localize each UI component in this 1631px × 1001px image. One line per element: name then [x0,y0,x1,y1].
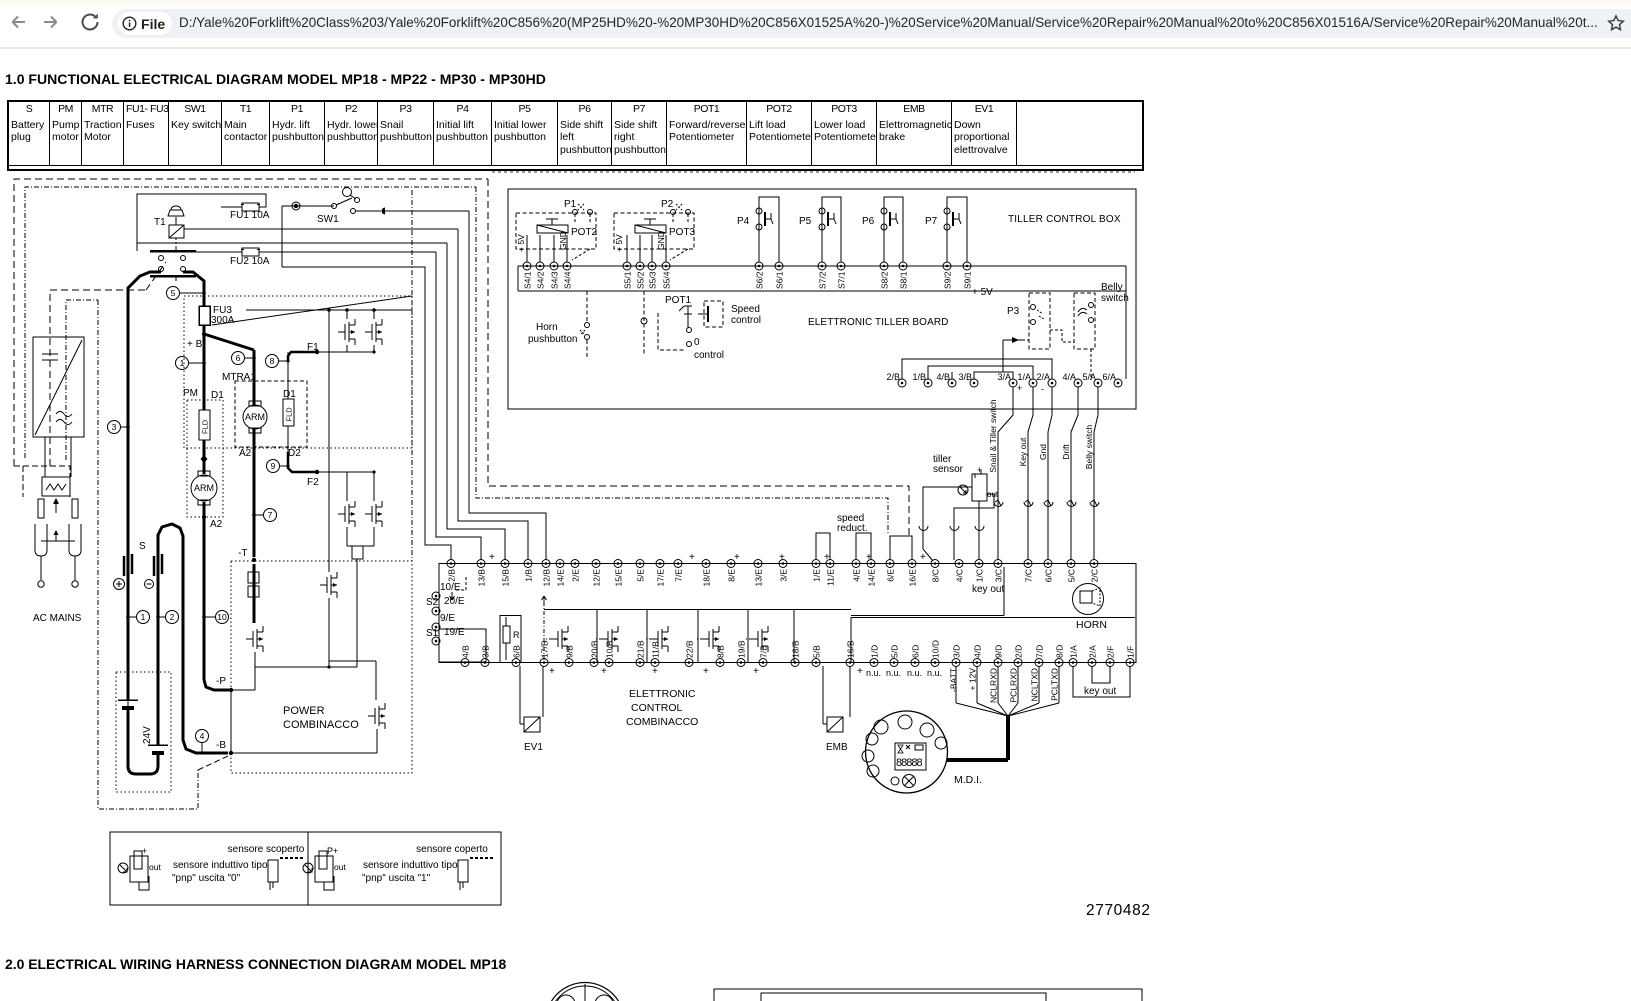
svg-text:TILLER CONTROL BOX: TILLER CONTROL BOX [1008,214,1121,225]
svg-text:SW1: SW1 [317,214,339,225]
dash-dot 17/B line [543,602,545,660]
svg-text:1: 1 [141,612,146,622]
pnp sensor icon 1 [118,863,128,873]
svg-text:2/B: 2/B [886,372,900,382]
key out bracket 1/A 1/F [1073,666,1130,697]
svg-text:A2: A2 [210,519,223,530]
svg-text:F1: F1 [307,342,319,353]
svg-text:10/D: 10/D [931,640,941,658]
svg-text:+ 5V: + 5V [516,234,526,252]
node 1 (PM top) [176,357,189,370]
svg-text:F2: F2 [307,477,319,488]
motor area dash-dot boundary [98,300,198,809]
svg-text:S9/1: S9/1 [963,271,973,289]
tiller box bottom terminal row [898,379,906,387]
svg-text:2770482: 2770482 [1086,902,1151,919]
svg-text:6/D: 6/D [911,645,921,658]
MOSFET Q7 [375,690,377,700]
svg-text:S5/3: S5/3 [648,271,658,289]
tiller board terminal strip [518,265,1126,267]
T1 contacts [150,250,196,253]
svg-text:FU2 10A: FU2 10A [230,256,270,267]
svg-text:2/A: 2/A [1088,645,1098,658]
wires from T1 to control board (stair bundle) [184,228,458,230]
svg-text:R: R [513,630,520,640]
svg-text:FLD: FLD [201,419,210,434]
svg-text:20/B: 20/B [590,640,600,658]
pnp sensor icon 2 [303,863,313,873]
svg-text:2/F: 2/F [1106,646,1116,658]
MOSFET Q1 Q2 (upper pair) [328,310,330,569]
svg-text:7/C: 7/C [1024,569,1034,582]
horn [1073,584,1104,615]
svg-text:ELETTRONIC: ELETTRONIC [629,688,696,700]
svg-text:11/E: 11/E [826,569,836,586]
svg-text:+: + [142,846,147,856]
svg-text:+: + [1017,383,1022,393]
svg-text:+: + [857,666,863,677]
svg-text:88888: 88888 [896,757,922,769]
node 3 [108,421,121,434]
svg-text:+: + [734,552,740,563]
node 1 battery [137,611,150,624]
MDI display gauge [866,711,948,793]
file pill [118,12,172,35]
svg-text:P1: P1 [564,199,577,210]
node 7 [264,509,277,522]
svg-text:5/D: 5/D [890,645,900,658]
svg-text:15/E: 15/E [614,569,624,587]
svg-text:8/E: 8/E [727,569,737,582]
svg-text:sensor: sensor [933,464,964,475]
input res cell R [500,615,521,662]
key switch SW1 [282,205,334,207]
fuse FU2 10A [242,248,259,256]
svg-text:sensore induttivo tipo: sensore induttivo tipo [173,860,268,871]
svg-text:n.u.: n.u. [927,668,942,678]
svg-text:21/B: 21/B [636,640,646,658]
svg-text:4/D: 4/D [973,645,983,658]
svg-text:10/E: 10/E [440,582,461,593]
svg-text:6: 6 [236,353,241,363]
charger output wires [44,437,46,477]
svg-text:18/B: 18/B [791,640,801,658]
svg-text:switch: switch [1101,293,1129,304]
jumper loops above board [816,533,830,559]
tiller control box [508,189,1136,409]
svg-text:n.u.: n.u. [866,668,881,678]
svg-text:S7/1: S7/1 [837,271,847,289]
svg-text:4/C: 4/C [955,569,965,582]
svg-text:sensore induttivo tipo: sensore induttivo tipo [363,860,458,871]
svg-text:P6: P6 [862,216,875,227]
svg-text:S5/2: S5/2 [636,271,646,289]
svg-text:12/B: 12/B [542,569,552,587]
svg-text:3/A: 3/A [997,372,1011,382]
inner dash-dot enclosure [25,187,476,458]
MTRA1 armature [243,405,267,429]
diode arrow to P3 [1003,339,1022,341]
svg-text:3/B: 3/B [958,372,972,382]
battery connectors [127,558,130,700]
svg-text:11/B: 11/B [651,641,661,658]
svg-text:+: + [703,666,709,677]
thick diagonal +B to MTRA1 [204,334,254,350]
svg-text:key out: key out [1084,686,1116,697]
svg-text:+: + [689,552,695,563]
driver igbt cells [567,626,569,632]
svg-text:PM: PM [183,388,198,399]
svg-text:Belly: Belly [1101,282,1123,293]
plug sockets [35,524,47,556]
svg-text:S: S [139,541,146,552]
svg-text:out: out [149,862,161,872]
svg-text:+: + [601,666,607,677]
node 6 [232,352,245,365]
PM armature [191,475,217,501]
bookmark star [1606,13,1626,33]
fuse FU3 300A [199,306,210,325]
POT3 [614,213,694,249]
PM dotted box [187,400,223,517]
svg-text:14/E: 14/E [867,569,877,587]
svg-text:1/D: 1/D [870,645,880,658]
svg-text:2/A: 2/A [1036,372,1050,382]
dashed marks 10/E [455,577,466,590]
svg-text:-BATT: -BATT [949,668,959,692]
svg-text:4: 4 [200,731,205,741]
svg-text:9/D: 9/D [994,645,1004,658]
svg-text:P4: P4 [737,216,750,227]
svg-text:13/E: 13/E [754,569,764,587]
svg-text:+: + [920,552,926,563]
svg-text:Gnd: Gnd [1038,444,1048,460]
MOSFET Q5 [328,569,330,572]
svg-text:MTRA1: MTRA1 [222,372,256,383]
svg-text:7/E: 7/E [674,569,684,582]
svg-text:1/B: 1/B [524,569,534,582]
motor section dotted box [184,296,412,448]
svg-text:Belly switch: Belly switch [1084,425,1094,470]
svg-text:4/B: 4/B [461,645,471,658]
svg-text:17/E: 17/E [656,569,666,587]
svg-text:-B: -B [216,740,226,751]
svg-text:1/A: 1/A [1017,372,1031,382]
svg-text:+: + [652,666,658,677]
svg-text:+ 5V: + 5V [972,287,993,298]
svg-text:GND: GND [656,231,666,250]
svg-text:9/E: 9/E [440,613,455,624]
svg-text:S5/4: S5/4 [662,271,672,289]
svg-text:3/D: 3/D [952,645,962,658]
MOSFET Q6 [253,564,256,623]
tiller strip terminals [523,262,531,270]
svg-text:7: 7 [268,510,273,520]
svg-text:7/D: 7/D [1035,645,1045,658]
node 2 battery [166,611,179,624]
POT2 [516,213,596,249]
svg-text:NCLRXD: NCLRXD [989,668,999,703]
svg-text:8: 8 [270,356,275,366]
svg-text:-T: -T [238,548,247,559]
svg-text:+: + [779,552,785,563]
node 8 / D1 field [266,355,279,368]
svg-text:5: 5 [171,288,176,298]
board top terminal row [447,560,455,568]
reload [80,12,102,34]
svg-text:15/B: 15/B [501,569,511,587]
fuse FU1 10A [242,203,259,211]
svg-text:7/B: 7/B [759,645,769,658]
forward arrow [41,12,63,34]
svg-text:6/C: 6/C [1044,569,1054,582]
svg-text:POT1: POT1 [665,295,692,306]
right edge strip drop [1125,291,1127,379]
thick cable MDI to board [947,758,1008,762]
node 10 [216,611,229,624]
svg-text:19/B: 19/B [737,640,747,658]
svg-text:D1: D1 [211,390,224,401]
svg-text:out: out [334,862,346,872]
svg-text:1/A: 1/A [1069,645,1079,658]
wire loop around FU1 [137,194,266,251]
svg-text:Drift: Drift [1061,444,1071,460]
AC plug dashed fragment [14,466,70,497]
svg-text:S9/2: S9/2 [943,271,953,289]
svg-text:2/C: 2/C [1090,569,1100,582]
svg-text:control: control [694,350,724,361]
svg-text:6/A: 6/A [1102,372,1116,382]
svg-text:5/E: 5/E [636,569,646,582]
polarity circles [114,579,125,590]
svg-text:S6/2: S6/2 [755,271,765,289]
svg-text:COMBINACCO: COMBINACCO [283,719,359,731]
svg-text:COMBINACCO: COMBINACCO [626,716,698,728]
svg-text:POT3: POT3 [669,227,696,238]
plug pins [38,499,44,518]
svg-text:18/E: 18/E [702,569,712,587]
svg-text:4/E: 4/E [852,569,862,582]
svg-text:+ B: + B [187,339,203,350]
svg-text:PCLTXD: PCLTXD [1050,668,1060,701]
svg-text:0: 0 [694,337,700,348]
svg-text:10/B: 10/B [605,640,615,658]
svg-text:EMB: EMB [826,742,848,753]
shunt R1 [248,572,259,583]
tiller sensor wires [923,487,972,561]
svg-text:HORN: HORN [1076,619,1107,631]
MTRA1 inner dashed box [235,381,307,447]
svg-text:FLD: FLD [285,407,294,422]
svg-text:4/B: 4/B [936,372,950,382]
svg-text:8/C: 8/C [931,569,941,582]
sensor legend box [110,832,501,905]
EMB electromagnetic brake [822,666,824,724]
EV1 electrovalve [519,666,521,724]
control board outline [439,564,1136,663]
svg-text:2/D: 2/D [1014,645,1024,658]
thick bend to -P [204,680,229,690]
charger dashed box [50,290,146,466]
svg-text:24V: 24V [142,726,153,744]
wire FU2 row [196,251,242,253]
svg-text:22/B: 22/B [685,640,695,658]
svg-text:S6/1: S6/1 [775,271,785,289]
svg-text:S7/2: S7/2 [818,271,828,289]
svg-text:P5: P5 [799,216,812,227]
svg-text:ELETTRONIC TILLER BOARD: ELETTRONIC TILLER BOARD [808,317,948,328]
belly switch box [1074,293,1095,349]
battery 24V dotted box [116,672,171,792]
PM field winding FLD [199,410,210,440]
bus bar y310 [246,309,412,311]
svg-text:+: + [549,666,555,677]
svg-text:9/B: 9/B [565,645,575,658]
svg-text:POWER: POWER [283,705,325,717]
svg-text:T1: T1 [154,217,166,228]
back arrow [6,12,28,34]
svg-text:+: + [824,552,830,563]
svg-text:"pnp" uscita "1": "pnp" uscita "1" [362,873,431,884]
svg-text:ARM: ARM [194,483,214,493]
svg-text:P2: P2 [661,199,674,210]
svg-text:S4/2: S4/2 [536,271,546,289]
svg-text:S4/3: S4/3 [550,271,560,289]
key out wire from 16/B [851,614,1004,616]
svg-text:1/B: 1/B [912,372,926,382]
svg-text:14/E: 14/E [556,569,566,587]
svg-text:2/E: 2/E [571,569,581,582]
svg-text:5/C: 5/C [1067,569,1077,582]
svg-text:+ 12V: + 12V [968,668,978,691]
svg-text:sensore coperto: sensore coperto [416,844,488,855]
svg-text:NCLTXD: NCLTXD [1030,668,1040,701]
faint dotted line under table [492,171,1135,173]
bottom harness box (partial) [714,989,1142,1001]
svg-text:Snail & Tiller switch: Snail & Tiller switch [988,399,998,472]
svg-text:1/F: 1/F [1126,646,1136,658]
svg-text:9: 9 [271,461,276,471]
svg-text:8/D: 8/D [1055,645,1065,658]
svg-text:n.u.: n.u. [907,668,922,678]
svg-text:S4/4: S4/4 [563,271,573,289]
svg-text:Key out: Key out [1018,437,1028,466]
outer dashed enclosure [14,179,488,466]
svg-text:S5/1: S5/1 [623,271,633,289]
jumper wires above tiller bottom row [902,359,1052,379]
svg-text:D1: D1 [283,389,296,400]
power section dotted box [231,561,412,773]
svg-text:5/A: 5/A [1082,372,1096,382]
svg-text:P3: P3 [1007,306,1020,317]
svg-text:17/B: 17/B [540,640,550,658]
svg-text:16/E: 16/E [908,569,918,587]
board inner structure [851,617,1135,619]
svg-text:6/E: 6/E [886,569,896,582]
-P rail [231,689,255,691]
svg-text:POT2: POT2 [571,227,598,238]
svg-text:key out: key out [972,584,1004,595]
bottom wheel (partial) [546,983,625,1001]
svg-text:Speed: Speed [731,304,760,315]
battery cells [118,699,138,701]
svg-text:M.D.I.: M.D.I. [954,774,982,786]
svg-text:1/C: 1/C [975,569,985,582]
svg-text:S2: S2 [426,597,439,608]
svg-text:A2: A2 [239,448,252,459]
omnibox [112,9,1631,38]
MOSFET Q3 Q4 (lower pair) [346,472,348,501]
svg-text:4/A: 4/A [1062,372,1076,382]
svg-text:20/E: 20/E [444,596,465,607]
svg-text:D2: D2 [288,448,301,459]
svg-text:3/E: 3/E [779,569,789,582]
svg-text:3: 3 [112,422,117,432]
svg-text:6/B: 6/B [512,645,522,658]
svg-text:10: 10 [217,612,227,622]
svg-text:1/E: 1/E [812,569,822,582]
svg-text:S8/2: S8/2 [880,271,890,289]
svg-text:n.u.: n.u. [886,668,901,678]
thick feed wires from contacts [128,272,161,558]
svg-text:-P: -P [216,676,226,687]
D1 FLD [283,399,294,426]
pointer line to dotted box corner [212,296,412,325]
svg-text:S4/1: S4/1 [523,271,533,289]
svg-text:8/B: 8/B [716,645,726,658]
shunt R2 [352,546,363,559]
svg-text:Horn: Horn [536,322,558,333]
node 9 / F2 [267,460,280,473]
svg-text:-: - [1041,384,1044,394]
wire funnel to D terminals [955,666,957,703]
browser toolbar [0,0,1631,49]
svg-text:sensore scoperto: sensore scoperto [228,844,305,855]
svg-text:"pnp" uscita "0": "pnp" uscita "0" [172,873,241,884]
svg-text:P7: P7 [925,216,938,227]
svg-text:3/C: 3/C [994,569,1004,582]
svg-text:13/B: 13/B [477,569,487,587]
svg-text:5/B: 5/B [812,645,822,658]
svg-text:2: 2 [170,612,175,622]
svg-text:+ 5V: + 5V [614,234,624,252]
svg-text:1: 1 [180,358,185,368]
battery charger [33,337,84,437]
node 5 [167,287,180,300]
board bottom row (D side) [870,659,878,667]
svg-text:+: + [753,666,759,677]
svg-text:reduct.: reduct. [837,523,868,534]
svg-text:PCLRXD: PCLRXD [1009,668,1019,702]
svg-text:pushbutton: pushbutton [528,334,578,345]
svg-text:S8/1: S8/1 [899,271,909,289]
wires tiller to board with rotated labels [998,387,1013,560]
svg-text:12/E: 12/E [592,569,602,587]
svg-text:EV1: EV1 [524,742,543,753]
board bottom terminal row (B side) [461,659,469,667]
svg-text:AC MAINS: AC MAINS [33,613,82,624]
svg-text:CONTROL: CONTROL [631,702,682,714]
node 4 [196,730,209,743]
relay box [42,477,70,496]
svg-text:2/B: 2/B [447,569,457,582]
svg-text:+: + [489,552,495,563]
S loop to -B [158,524,228,753]
svg-text:P+: P+ [327,846,338,856]
-B rail [231,752,377,754]
svg-text:control: control [731,315,761,326]
svg-text:ARM: ARM [245,412,265,422]
